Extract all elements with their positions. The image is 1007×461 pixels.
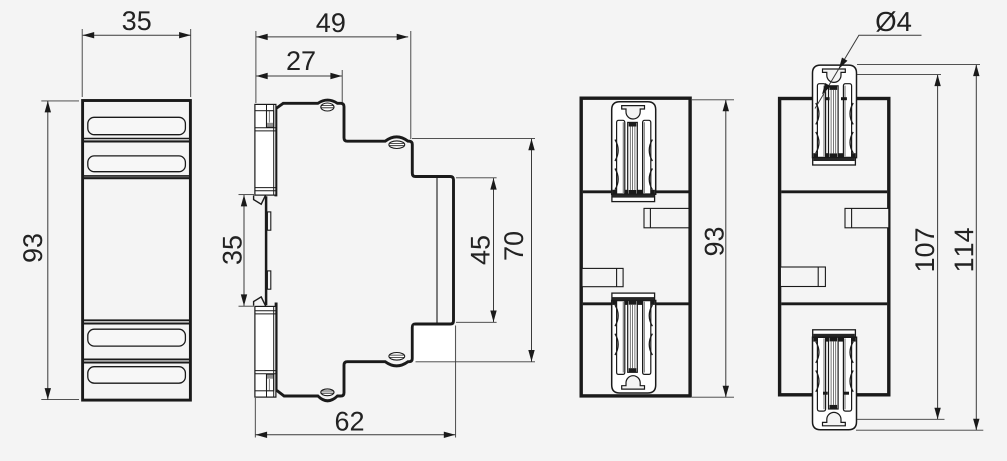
top clip extended — [813, 65, 857, 165]
dim 93 label — [705, 228, 724, 256]
dim 45 extension lines — [456, 177, 497, 179]
dim 93 extension lines — [692, 99, 734, 101]
dim 62 label — [336, 412, 363, 431]
rear divider B — [583, 302, 689, 305]
rear right vent — [845, 208, 889, 227]
dim 45 label — [471, 236, 490, 264]
dim 35 line — [83, 34, 191, 36]
side rib inner edge — [436, 178, 438, 324]
top clip — [612, 102, 656, 202]
dia 4 label — [876, 11, 911, 31]
top hook wedge — [254, 195, 266, 204]
screw S2 — [389, 141, 405, 149]
rear right vent — [644, 208, 689, 227]
dia 4 leader arrow 2 — [819, 83, 830, 96]
rear left vent — [780, 267, 825, 287]
dim 27 extension line — [341, 70, 343, 102]
dim 49 extension lines — [255, 31, 257, 103]
screw S4 — [321, 389, 334, 396]
rear divider A — [583, 190, 689, 193]
front divider 1 — [83, 138, 190, 140]
front face between terminals — [265, 196, 268, 305]
bottom clip — [612, 293, 656, 393]
bottom edge through clip slots — [823, 392, 828, 395]
rear left vent — [582, 268, 623, 286]
dim 70 label — [504, 232, 523, 260]
face tab 2 — [267, 271, 270, 289]
dia 4 leader arrow 1 — [836, 57, 847, 70]
dim 114 extension lines — [857, 64, 980, 66]
dim 27 label — [287, 51, 314, 70]
dim 35 side label — [223, 236, 242, 264]
dim 93 label — [23, 234, 42, 262]
front divider 4 — [83, 358, 190, 360]
dim 93 line — [47, 101, 49, 400]
front divider 3 — [83, 319, 190, 321]
face tab 1 — [267, 212, 270, 230]
bottom clip extended — [813, 330, 857, 430]
dim 35 side extension lines — [239, 194, 255, 196]
dim 107 label — [915, 229, 934, 271]
front slot 1 — [88, 117, 186, 134]
bottom hook wedge — [254, 297, 266, 306]
screw S3 — [389, 353, 405, 361]
dim 35 label — [123, 11, 151, 30]
white recess — [414, 326, 455, 362]
screw S1 — [321, 103, 334, 111]
dim 49 label — [316, 13, 344, 32]
dim 114 label — [955, 228, 974, 270]
dim 93 extension lines — [41, 100, 79, 102]
dim 70 extension lines — [412, 137, 535, 139]
dim 62 line — [256, 434, 456, 436]
side body outline — [276, 100, 454, 401]
rear body outline — [780, 99, 889, 395]
dim 35 extension lines — [81, 29, 83, 97]
rear divider A — [781, 190, 887, 193]
dim 93 line — [725, 100, 727, 397]
dim 49 line — [256, 36, 408, 38]
dim 107 extension lines — [857, 74, 941, 76]
front slot 2 — [88, 156, 186, 172]
dim 45 line — [493, 178, 495, 322]
dim 114 line — [975, 65, 977, 431]
rear body outline — [581, 98, 690, 396]
dim 27 line — [256, 75, 342, 77]
dim 70 line — [531, 139, 533, 362]
terminal block bottom — [255, 306, 276, 397]
dim 107 line — [937, 75, 939, 420]
dim 35 side line — [243, 195, 245, 306]
dim 62 extension lines — [254, 398, 256, 438]
rear divider B — [781, 302, 887, 305]
front slot 4 — [88, 367, 186, 384]
front body outline — [83, 101, 191, 401]
terminal block top — [255, 104, 276, 195]
dia 4 leader — [815, 35, 922, 108]
front divider 2 — [83, 175, 190, 177]
front slot 3 — [88, 329, 186, 346]
top edge through clip slots — [825, 97, 830, 100]
